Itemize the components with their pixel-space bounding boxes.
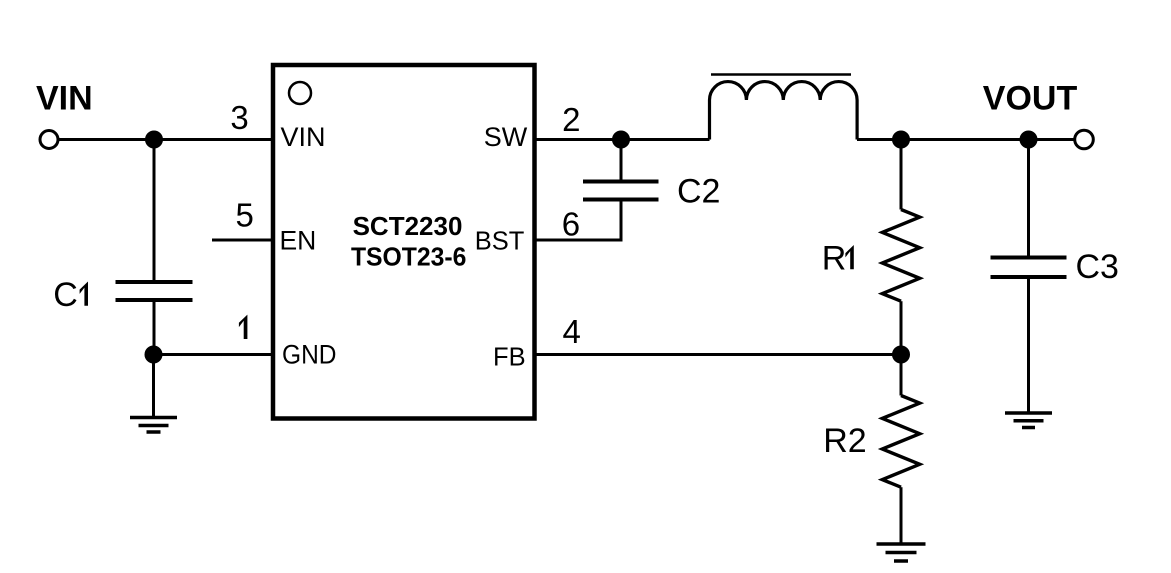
ground C3: [1005, 413, 1052, 428]
svg-text:VIN: VIN: [36, 80, 93, 118]
svg-text:6: 6: [562, 206, 580, 243]
svg-text:GND: GND: [282, 340, 337, 370]
terminal VOUT: [1075, 130, 1094, 149]
svg-text:BST: BST: [475, 228, 525, 256]
inductor L1: [710, 75, 858, 140]
wire C1 to GND pin: [154, 353, 274, 356]
svg-text:FB: FB: [493, 344, 526, 372]
wire SW to inductor: [535, 138, 710, 141]
svg-text:VOUT: VOUT: [983, 80, 1078, 118]
pin number 1: [239, 315, 248, 339]
wire inductor to VOUT: [857, 138, 1075, 141]
capacitor C3: [991, 140, 1067, 414]
svg-text:C3: C3: [1076, 248, 1119, 286]
svg-text:R: R: [822, 239, 847, 277]
IC pin 1 marker circle: [289, 82, 311, 104]
svg-text:5: 5: [236, 197, 254, 234]
junction node SW-C2: [612, 131, 630, 149]
svg-text:2: 2: [562, 101, 580, 138]
svg-text:R2: R2: [823, 422, 866, 460]
svg-text:TSOT23-6: TSOT23-6: [351, 242, 467, 272]
junction node VOUT-R1: [892, 131, 910, 149]
wire FB pin to divider: [535, 353, 902, 356]
wire BST to C2: [535, 239, 623, 242]
IC U1 body SCT2230: [273, 65, 535, 419]
junction node VOUT-C3: [1020, 131, 1038, 149]
ground C1: [130, 355, 177, 433]
junction node VIN-C1: [145, 131, 163, 149]
capacitor C2: [583, 140, 659, 241]
wire VIN terminal to pin 3: [59, 138, 274, 141]
label C1: [53, 276, 88, 314]
capacitor C1: [116, 140, 193, 355]
terminal VIN: [40, 131, 58, 149]
svg-text:SCT2230: SCT2230: [353, 211, 463, 241]
svg-text:EN: EN: [280, 226, 317, 256]
junction node GND-C1: [145, 346, 163, 364]
resistor R1: [882, 140, 919, 355]
label R1: [822, 239, 854, 277]
ground R2: [877, 544, 926, 561]
svg-text:C2: C2: [677, 173, 720, 211]
junction node FB: [892, 346, 910, 364]
svg-text:3: 3: [230, 99, 248, 136]
wire EN stub: [212, 239, 273, 242]
svg-text:4: 4: [563, 313, 581, 350]
resistor R2: [882, 355, 919, 545]
svg-text:VIN: VIN: [281, 122, 326, 152]
svg-text:C: C: [53, 276, 78, 314]
svg-text:SW: SW: [484, 122, 528, 152]
